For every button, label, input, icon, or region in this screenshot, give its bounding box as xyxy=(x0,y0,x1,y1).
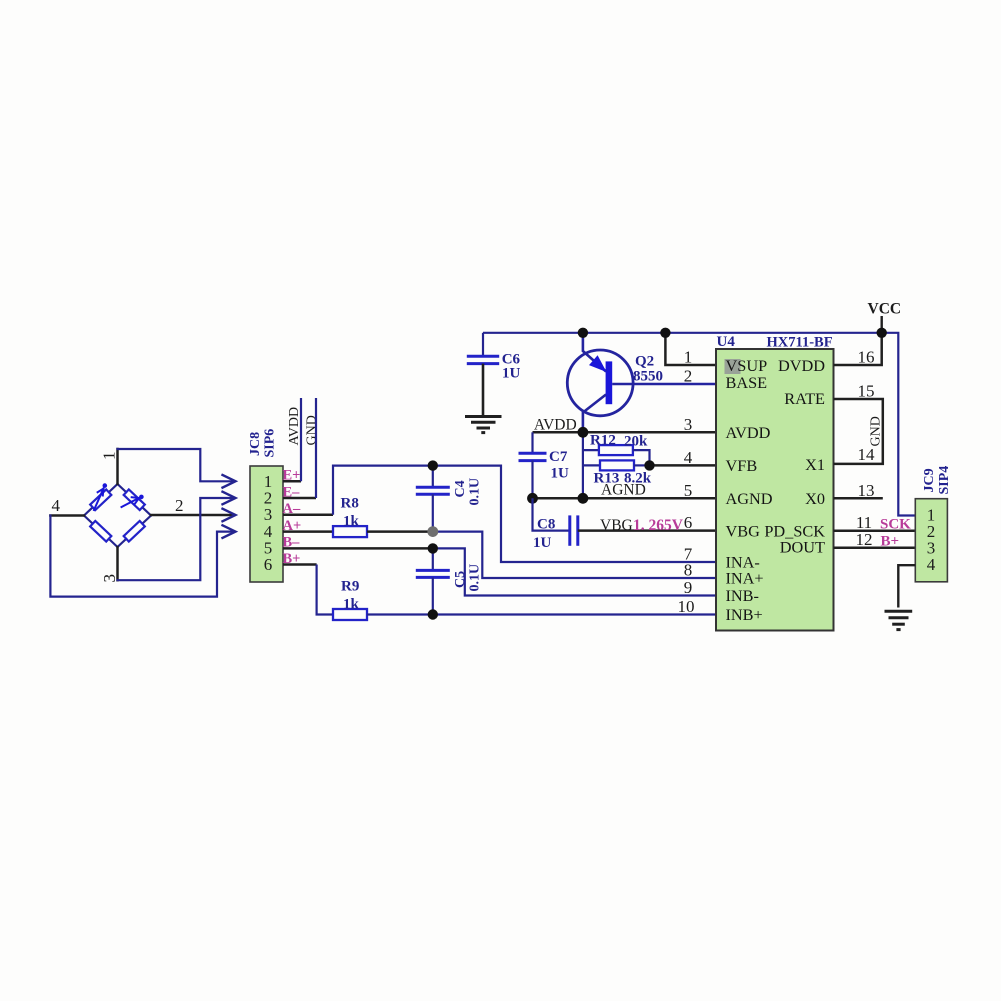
svg-text:15: 15 xyxy=(858,382,875,401)
transistor Q2 ref label xyxy=(635,354,654,370)
arrowhead row3 A- xyxy=(223,509,236,522)
svg-text:1: 1 xyxy=(684,348,693,367)
junction AGND / R13 branch xyxy=(578,493,589,504)
svg-text:BASE: BASE xyxy=(726,373,768,392)
node label 4 xyxy=(52,496,61,515)
capacitor C6 bottom lead xyxy=(482,364,485,416)
svg-text:X0: X0 xyxy=(805,489,825,508)
strain gauge element upper-right xyxy=(124,489,145,510)
wire U4 pin11 PD_SCK to JC9 pin2 xyxy=(834,530,916,533)
svg-text:10: 10 xyxy=(678,597,695,616)
svg-text:R9: R9 xyxy=(341,579,359,595)
svg-text:1k: 1k xyxy=(343,597,360,613)
wire JC8 pin1 stub to AVDD riser xyxy=(283,480,301,483)
transistor Q2 collector lead (to AVDD node) xyxy=(583,395,606,434)
svg-text:SIP6: SIP6 xyxy=(263,429,278,458)
wire node2 to arrow row A- xyxy=(151,514,234,517)
capacitor C4 bottom lead xyxy=(432,494,434,531)
VCC top rail wire xyxy=(483,333,915,516)
node label 2 xyxy=(175,496,184,515)
svg-text:VBG: VBG xyxy=(600,517,633,534)
arrowhead row4 A+ xyxy=(223,525,236,538)
svg-text:5: 5 xyxy=(684,481,693,500)
wire AGND line to U4 pin5 xyxy=(533,497,717,500)
net label GND (vertical, above JC8 pin2) xyxy=(305,415,320,445)
svg-text:4: 4 xyxy=(684,448,693,467)
wire JC9 pin4 to ground xyxy=(898,565,915,607)
svg-text:AGND: AGND xyxy=(601,482,646,499)
JC8 pin label B+ xyxy=(283,551,301,567)
capacitor C5 top lead xyxy=(432,548,434,570)
bridge edge top-right xyxy=(118,484,152,516)
bridge edge bottom-left xyxy=(84,516,118,548)
VCC stub xyxy=(881,316,883,333)
wire JC8 pin5 (B-) across xyxy=(283,547,433,550)
wire U4 pin13 X0 stub xyxy=(834,497,883,500)
transistor Q2 base bar xyxy=(606,361,613,404)
wire to R13 left lead xyxy=(583,464,600,466)
svg-text:HX711-BF: HX711-BF xyxy=(767,335,833,351)
wire node3 to arrow row E- xyxy=(118,498,235,580)
strain gauge element upper-left xyxy=(90,489,111,510)
resistor R9 body xyxy=(333,609,367,620)
capacitor C5 ref label (vertical) xyxy=(453,571,468,588)
wire AVDD node left to C7 branch xyxy=(533,431,583,434)
JC8 pin label E+ xyxy=(283,468,301,484)
svg-text:VFB: VFB xyxy=(726,456,758,475)
svg-text:DOUT: DOUT xyxy=(780,538,825,557)
svg-text:AVDD: AVDD xyxy=(534,417,577,434)
VSUP highlight box xyxy=(725,359,741,374)
capacitor C5 value 0.1U (vertical) xyxy=(468,564,483,592)
resistor R13 body xyxy=(600,460,634,470)
wire node4 loop to arrow row B+ xyxy=(50,516,234,597)
wire AVDD node to U4 pin3 xyxy=(583,431,716,434)
svg-text:Q2: Q2 xyxy=(635,354,654,370)
resistor R8 body xyxy=(333,526,367,537)
svg-text:VBG: VBG xyxy=(726,522,761,541)
svg-text:DVDD: DVDD xyxy=(778,356,825,375)
capacitor C7 bottom lead to AGND xyxy=(531,461,533,499)
wire R13 right lead to VFB junction xyxy=(634,464,650,466)
wire node1 to arrow row E+ xyxy=(118,449,235,484)
net label AGND xyxy=(601,482,646,499)
svg-text:9: 9 xyxy=(684,578,693,597)
wire R12 right lead to VFB junction xyxy=(633,450,650,465)
wire B- net to INB- xyxy=(433,548,716,595)
junction top rail / VSUP xyxy=(660,328,670,338)
svg-text:JC9: JC9 xyxy=(922,468,937,492)
svg-text:12: 12 xyxy=(856,530,873,549)
svg-text:1U: 1U xyxy=(502,366,521,382)
wire AGND down to C8 left plate xyxy=(533,498,570,530)
capacitor C6 top lead xyxy=(482,333,484,356)
capacitor C4 ref label (vertical) xyxy=(453,480,468,497)
svg-text:1. 265V: 1. 265V xyxy=(633,517,684,534)
svg-text:14: 14 xyxy=(858,445,876,464)
strain gauge element lower-right xyxy=(124,521,145,542)
capacitor C7 ref label xyxy=(549,449,568,465)
junction A- / C4 top xyxy=(428,460,438,470)
node label 1 (rotated) xyxy=(100,452,119,461)
capacitor C5 bottom lead xyxy=(432,577,434,614)
svg-text:1U: 1U xyxy=(551,466,570,482)
svg-text:U4: U4 xyxy=(717,334,736,350)
capacitor C4 value 0.1U (vertical) xyxy=(468,478,483,506)
capacitor C8 ref label xyxy=(537,517,555,533)
resistor R12 body xyxy=(599,445,633,455)
wire RATE to X1 (GND bracket) xyxy=(834,399,883,464)
net value 1.265V (magenta) xyxy=(633,517,684,534)
transistor Q2 circle xyxy=(567,350,633,416)
svg-text:6: 6 xyxy=(684,513,693,532)
U4 right pin numbers xyxy=(856,348,876,550)
node label 3 (rotated) xyxy=(100,574,119,583)
U4 right pin names xyxy=(764,356,825,557)
net label VBG xyxy=(600,517,633,534)
JC8 pin label A- xyxy=(283,501,301,517)
ground symbol at C6 xyxy=(465,417,502,433)
wire A- net up and across to INA- xyxy=(333,466,716,562)
wire JC8 pin6 stub (B+) xyxy=(283,563,317,566)
svg-text:4: 4 xyxy=(52,496,61,515)
power label VCC xyxy=(868,301,902,318)
junction AGND / C7 xyxy=(527,493,538,504)
svg-text:B+: B+ xyxy=(881,534,900,550)
svg-text:X1: X1 xyxy=(805,455,825,474)
svg-text:VCC: VCC xyxy=(868,301,902,318)
JC9 vertical type label SIP4 xyxy=(937,466,952,495)
strain gauge element lower-left xyxy=(90,521,111,542)
svg-text:2: 2 xyxy=(684,367,693,386)
wire to R12 left lead xyxy=(583,449,599,451)
svg-text:6: 6 xyxy=(264,555,273,574)
net label B+ (magenta) xyxy=(881,534,900,550)
wire A+ net to INA+ xyxy=(433,532,716,578)
transistor Q2 base lead to U4 pin2 xyxy=(612,383,716,385)
svg-text:INB-: INB- xyxy=(726,586,759,605)
variable arrow on upper-left gauge xyxy=(94,483,107,510)
svg-text:INB+: INB+ xyxy=(726,605,763,624)
svg-text:AGND: AGND xyxy=(726,489,773,508)
svg-text:GND: GND xyxy=(869,416,884,446)
op IC U4 HX711-BF body xyxy=(716,349,834,631)
transistor Q2 emitter arrow xyxy=(589,355,607,372)
svg-text:R12: R12 xyxy=(590,433,616,449)
transistor Q2 emitter lead (to VCC rail) xyxy=(583,333,606,372)
svg-text:AVDD: AVDD xyxy=(287,407,302,446)
ground symbol at JC9 xyxy=(885,611,913,629)
resistor R8 ref label xyxy=(341,496,359,512)
wire B+ drop to R9 xyxy=(317,565,333,615)
U4 ref label xyxy=(717,334,736,350)
svg-text:GND: GND xyxy=(305,415,320,445)
junction AVDD node xyxy=(578,427,589,438)
capacitor C5 plates xyxy=(416,570,450,577)
load cell bridge (strain gauge wheatstone bridge) xyxy=(50,449,235,597)
net label AVDD (vertical, above JC8 pin1) xyxy=(287,407,302,446)
wire GND riser xyxy=(315,398,317,498)
svg-text:JC8: JC8 xyxy=(248,432,263,456)
svg-text:RATE: RATE xyxy=(784,389,825,408)
capacitor C6 value 1U xyxy=(502,366,521,382)
svg-text:AVDD: AVDD xyxy=(726,423,771,442)
svg-text:8: 8 xyxy=(684,561,693,580)
capacitor C4 plates xyxy=(416,487,450,494)
connector JC8 body xyxy=(250,466,283,582)
net label GND (vertical, right) xyxy=(869,416,884,446)
U4 left pin names xyxy=(726,356,773,624)
capacitor C8 plates xyxy=(570,515,578,545)
JC8 pin label A+ xyxy=(283,518,302,534)
capacitor C7 top lead xyxy=(531,432,533,453)
JC8 pin label B- xyxy=(283,534,301,550)
svg-text:1U: 1U xyxy=(533,535,552,551)
JC8 vertical type label SIP6 xyxy=(263,429,278,458)
svg-text:3: 3 xyxy=(684,415,693,434)
svg-text:C5: C5 xyxy=(453,571,468,588)
resistor R12 ref label xyxy=(590,433,616,449)
svg-text:0.1U: 0.1U xyxy=(468,478,483,506)
bridge edge bottom-right xyxy=(118,516,152,548)
wire AVDD node down to R12/R13/AGND xyxy=(582,432,584,498)
svg-text:C8: C8 xyxy=(537,517,555,533)
junction VFB xyxy=(644,460,654,470)
arrowhead row2 E- xyxy=(223,492,236,505)
resistor R8 value 1k xyxy=(343,514,360,530)
net label AVDD xyxy=(534,417,577,434)
svg-text:SCK: SCK xyxy=(880,517,911,533)
resistor R9 value 1k xyxy=(343,597,360,613)
capacitor C6 ref label xyxy=(502,352,521,368)
wire U4 pin16 DVDD to VCC xyxy=(834,333,882,365)
wire R9 to C5 junction and INB+ xyxy=(367,613,716,615)
net label SCK (magenta) xyxy=(880,517,911,533)
svg-text:1k: 1k xyxy=(343,514,360,530)
svg-text:SIP4: SIP4 xyxy=(937,466,952,495)
JC8 pin label E- xyxy=(283,484,301,500)
U4 left pin numbers xyxy=(678,348,695,617)
svg-text:20k: 20k xyxy=(624,434,648,450)
wire JC8 pin2 stub to GND riser xyxy=(283,497,316,500)
wire JC8 pin4 stub (A+) to R8 xyxy=(283,530,333,533)
wire AVDD riser xyxy=(300,398,302,481)
wire C8 right plate to U4 pin6 VBG xyxy=(578,529,716,532)
junction VCC rail / DVDD xyxy=(877,328,887,338)
wire node4 horizontal xyxy=(50,514,84,517)
svg-text:2: 2 xyxy=(175,496,184,515)
connector JC9 body xyxy=(915,499,947,582)
wire R8 to C4 junction xyxy=(367,530,433,533)
JC8 pin numbers 1-6 xyxy=(264,472,273,574)
JC9 vertical ref label xyxy=(922,468,937,492)
junction A+ / C4 bottom (gray) xyxy=(427,526,438,537)
wire JC8 pin3 stub (A-) xyxy=(283,513,333,516)
resistor R9 ref label xyxy=(341,579,359,595)
wire U4 pin12 DOUT to JC9 pin3 xyxy=(834,547,916,550)
svg-text:INA+: INA+ xyxy=(726,569,764,588)
junction B- / C5 top xyxy=(428,543,438,553)
svg-text:16: 16 xyxy=(858,348,875,367)
svg-text:C7: C7 xyxy=(549,449,568,465)
svg-text:3: 3 xyxy=(100,574,119,583)
variable arrow on upper-right gauge xyxy=(122,495,144,507)
JC8 vertical ref label xyxy=(248,432,263,456)
bridge edge top-left xyxy=(84,484,118,516)
svg-text:0.1U: 0.1U xyxy=(468,564,483,592)
junction top rail / Q2 emitter xyxy=(578,328,588,338)
capacitor C7 value 1U xyxy=(551,466,570,482)
svg-text:8550: 8550 xyxy=(633,369,663,385)
junction B+ / C5 bottom xyxy=(428,609,438,619)
capacitor C6 plates xyxy=(467,356,499,363)
wire VFB junction to U4 pin4 xyxy=(650,464,717,467)
svg-text:1: 1 xyxy=(100,452,119,461)
wire U4 pin1 VSUP to rail xyxy=(665,333,716,365)
resistor R13 ref label xyxy=(594,471,620,487)
JC9 pin numbers 1-4 xyxy=(927,506,936,575)
arrowhead row1 E+ xyxy=(223,475,236,488)
capacitor C4 top lead xyxy=(432,466,434,488)
resistor R12 value 20k xyxy=(624,434,648,450)
U4 part label HX711-BF xyxy=(767,335,833,351)
capacitor C8 value 1U xyxy=(533,535,552,551)
capacitor C7 plates xyxy=(519,453,547,460)
svg-text:4: 4 xyxy=(927,555,936,574)
svg-text:C4: C4 xyxy=(453,480,468,497)
svg-text:R8: R8 xyxy=(341,496,359,512)
transistor Q2 value 8550 xyxy=(633,369,663,385)
resistor R13 value 8.2k xyxy=(624,471,652,487)
